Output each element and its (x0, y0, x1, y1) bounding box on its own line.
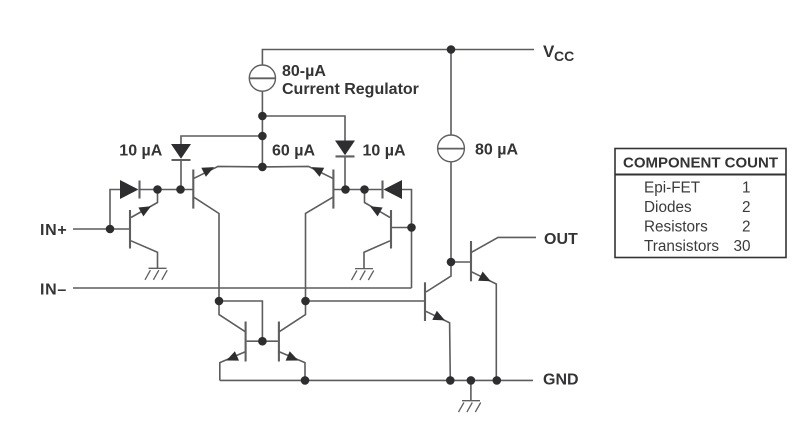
wire tail to Q2 emitter (262, 166, 332, 178)
svg-text:Resistors: Resistors (644, 218, 708, 235)
wire mirror base link (247, 340, 278, 342)
wire Q3 collector to ground (131, 241, 158, 268)
diode D4 cathode bar (336, 155, 355, 157)
wire Q6 emitter (279, 352, 305, 381)
wire Q1 base (139, 189, 192, 191)
wire dot to left 10uA diode (181, 136, 262, 145)
svg-text:1: 1 (742, 179, 751, 196)
svg-text:Current Regulator: Current Regulator (282, 81, 419, 98)
wire 80uA source top (450, 50, 452, 135)
node IN+ (106, 225, 115, 234)
node rail ground (467, 376, 476, 385)
wire D1 anode to IN+ node (110, 190, 121, 230)
ground (IN- stage) (352, 269, 374, 281)
svg-text:2: 2 (742, 218, 751, 235)
wire right 10uA diode cathode (344, 156, 346, 189)
node mirror right collector (301, 297, 310, 306)
transistor Q3 bar (IN+ follower) (129, 210, 131, 249)
transistor Q1 bar (left input PNP) (192, 170, 194, 209)
svg-text:80-µA: 80-µA (282, 63, 326, 80)
diode D2 (right input) (384, 180, 403, 199)
node VCC junction (447, 45, 456, 54)
arrow Q3 emitter (138, 206, 151, 216)
node Q3 emitter junction (153, 185, 162, 194)
node regulator out A (258, 112, 267, 121)
wire Q4 base (391, 227, 411, 229)
wire IN+ lead (73, 228, 129, 230)
diode D4 (right 10uA) (335, 141, 355, 156)
current source symbol (80 uA) (438, 135, 465, 162)
wire ground lead below GND rail (470, 380, 472, 400)
node mirror base (258, 337, 267, 346)
component count table (615, 149, 786, 258)
wire Q8 base (451, 261, 471, 263)
wire mirror to output base (306, 300, 425, 302)
diode D1 cathode bar (138, 181, 140, 199)
arrow Q8 emitter (478, 272, 491, 282)
node Q2 base left (341, 185, 350, 194)
node regulator out B (258, 132, 267, 141)
svg-text:IN–: IN– (40, 282, 67, 299)
wire Q7 collector (426, 262, 451, 292)
ground (GND rail) (459, 401, 481, 412)
wire Q4 emitter (365, 190, 391, 218)
ground (IN+ stage) (145, 268, 167, 280)
current regulator symbol (80-uA) (249, 65, 275, 91)
wire Q5 collector (219, 301, 246, 332)
svg-text:Transistors: Transistors (644, 238, 719, 255)
diode D3 (left 10uA) (171, 144, 191, 159)
arrow Q7 emitter (432, 311, 445, 321)
svg-text:10 µA: 10 µA (119, 143, 162, 160)
diode D3 cathode bar (172, 159, 191, 161)
node rail Q7 emitter (446, 376, 455, 385)
wire regulator output down center (261, 91, 263, 167)
svg-text:IN+: IN+ (40, 222, 67, 239)
node Q1 base left (176, 185, 185, 194)
wire Q2 base (334, 189, 383, 191)
svg-text:CC: CC (554, 48, 574, 64)
node Q4 emitter junction (360, 185, 369, 194)
wire IN- lead (73, 287, 412, 289)
wire D2 anode down to IN- (402, 190, 412, 289)
svg-text:10 µA: 10 µA (363, 143, 406, 160)
wire Q1 collector (194, 197, 219, 301)
transistor Q8 bar (output) (470, 241, 472, 281)
wire Q5 emitter (220, 352, 246, 381)
arrow Q5 emitter (226, 351, 239, 360)
node IN- to Q4 base (407, 223, 416, 232)
transistor Q2 bar (right input PNP) (332, 170, 334, 209)
transistor Q5 bar (mirror left) (245, 322, 247, 362)
wire Q6 collector (279, 301, 306, 332)
svg-text:Epi-FET: Epi-FET (644, 179, 700, 196)
svg-text:GND: GND (543, 372, 579, 389)
wire VCC rail (262, 50, 534, 66)
wire dot to right 10uA diode (262, 116, 345, 141)
arrow Q2 emitter (312, 167, 325, 177)
svg-text:OUT: OUT (544, 231, 578, 248)
arrow Q6 emitter (286, 351, 299, 360)
svg-text:COMPONENT COUNT: COMPONENT COUNT (623, 154, 778, 171)
svg-text:60 µA: 60 µA (272, 143, 315, 160)
node rail Q8 emitter (493, 376, 502, 385)
transistor Q6 bar (mirror right) (278, 322, 280, 362)
wire Q2 collector (306, 197, 333, 301)
wire Q8 emitter (472, 272, 497, 381)
svg-text:2: 2 (742, 199, 751, 216)
svg-text:30: 30 (733, 238, 750, 255)
wire Q7 emitter (426, 311, 451, 380)
transistor Q4 bar (IN- follower) (390, 210, 392, 249)
diode D1 (left input) (120, 180, 139, 199)
arrow Q4 emitter (370, 206, 383, 216)
arrow Q1 emitter (201, 167, 214, 177)
wire GND rail (220, 379, 533, 381)
wire Q3 emitter (131, 190, 158, 218)
transistor Q7 bar (output driver) (424, 282, 426, 321)
wire tail to Q1 emitter (194, 166, 262, 178)
node tail 60uA (258, 163, 267, 172)
svg-text:80 µA: 80 µA (475, 142, 518, 159)
wire left 10uA diode cathode (180, 160, 182, 190)
wire Q8 collector to OUT (472, 237, 537, 252)
svg-text:Diodes: Diodes (644, 199, 692, 216)
node rail mirror emitter (301, 376, 310, 385)
node mirror left collector (215, 297, 224, 306)
diode D2 cathode bar (381, 181, 383, 199)
wire 80uA source bottom (450, 162, 452, 262)
wire mirror diode connection (219, 301, 262, 341)
wire Q4 collector to ground (364, 241, 390, 269)
node output base (447, 258, 456, 267)
